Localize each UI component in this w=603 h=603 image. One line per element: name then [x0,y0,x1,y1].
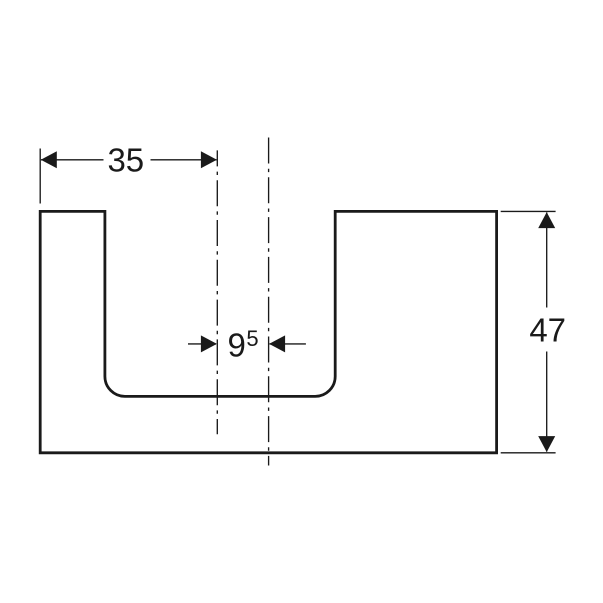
dim 35 arrow right [201,151,217,168]
dim 9.5 left tail [188,343,216,345]
dim 47 arrow up [538,212,555,228]
dim 9.5 right tail [270,343,306,345]
centerline right (product axis) [268,138,270,466]
dim 35 extension line [39,149,41,204]
svg-text:35: 35 [107,141,144,178]
dim 47 line lower segment [546,352,548,452]
worktop outline with U-shaped cutout [40,211,496,452]
svg-text:5: 5 [246,326,258,351]
dim 47 bottom extension line [501,452,556,454]
dim 47 line upper segment [546,213,548,308]
dim 47 top extension line [501,210,556,212]
dim 47 arrow down [538,436,555,452]
dim 35 line left segment [41,159,104,161]
svg-text:9: 9 [228,326,246,363]
svg-text:47: 47 [529,312,566,349]
dim 35 arrow left [41,151,57,168]
dim 35 line right segment [151,159,217,161]
dim 9.5 arrow left (pointing right) [201,335,217,352]
centerline left (cutout axis) [216,150,218,434]
dim 9.5 arrow right (pointing left) [269,335,285,352]
